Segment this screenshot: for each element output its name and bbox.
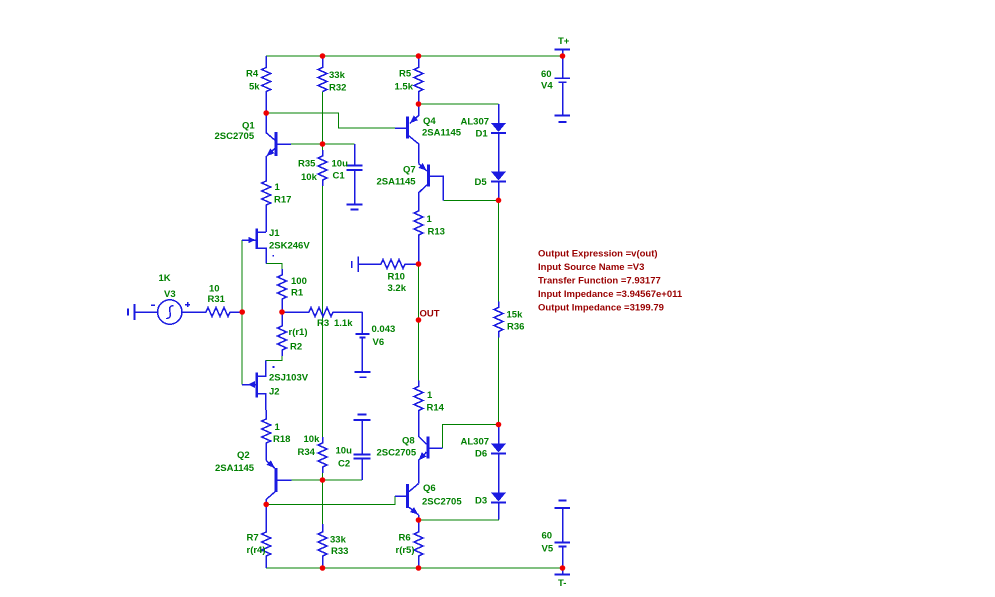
svg-text:R6: R6 (399, 533, 411, 544)
svg-text:D6: D6 (475, 449, 487, 460)
node T- (560, 565, 566, 571)
svg-text:1.5k: 1.5k (395, 82, 414, 93)
svg-text:R4: R4 (246, 69, 259, 80)
svg-text:1: 1 (427, 214, 433, 225)
svg-text:2SA1145: 2SA1145 (422, 128, 462, 139)
ground at input (128, 304, 135, 320)
terminal T+ and battery V4 60 (555, 50, 571, 116)
svg-text:5k: 5k (249, 82, 260, 93)
svg-text:J2: J2 (269, 387, 280, 398)
node R13 bottom (416, 261, 422, 267)
svg-text:2SA1145: 2SA1145 (377, 177, 417, 188)
wire R36 to D6 node (498, 338, 500, 425)
svg-text:r(r4): r(r4) (247, 545, 266, 556)
node D6 anode (496, 422, 502, 428)
svg-text:1: 1 (275, 182, 281, 193)
svg-text:100: 100 (291, 276, 307, 287)
svg-text:R36: R36 (507, 322, 524, 333)
resistor R1 100 (278, 269, 287, 312)
svg-text:R3: R3 (317, 318, 329, 329)
node Q6 emitter (416, 517, 422, 523)
svg-text:Q4: Q4 (423, 116, 436, 127)
wire Q6 emitter node to D3 (419, 503, 499, 520)
battery V6 0.043 (355, 312, 369, 372)
wire J2 source to R2 (266, 356, 282, 360)
svg-text:r(r1): r(r1) (289, 327, 308, 338)
resistor R7 r(r4) (262, 526, 271, 568)
svg-text:R32: R32 (329, 83, 346, 94)
svg-text:R33: R33 (331, 546, 348, 557)
transistor Q8 2SC2705 (419, 436, 443, 483)
diode D3 (491, 493, 506, 520)
capacitor C2 10u (354, 420, 371, 480)
svg-text:AL307: AL307 (461, 437, 490, 448)
wire node Q1 collector to Q4 base (266, 113, 395, 128)
svg-text:10u: 10u (336, 446, 353, 457)
svg-text:J1: J1 (269, 228, 280, 239)
resistor R2 r(r1) (278, 312, 287, 356)
node R5 top (416, 53, 422, 59)
resistor R35 10k (318, 150, 327, 186)
svg-text:60: 60 (542, 531, 553, 542)
svg-text:1.1k: 1.1k (334, 318, 353, 329)
node R1 R2 junction (279, 309, 285, 315)
svg-text:2SK246V: 2SK246V (269, 241, 310, 252)
svg-text:R18: R18 (273, 434, 290, 445)
transistor Q1 2SC2705 (266, 113, 291, 162)
resistor R36 15k (494, 302, 503, 338)
ground above C2 (354, 415, 371, 421)
svg-text:R31: R31 (208, 294, 226, 305)
transistor Q6 2SC2705 (395, 484, 419, 520)
svg-text:R5: R5 (399, 69, 412, 80)
battery V5 60 and terminal T- (555, 508, 571, 575)
jfet J1 2SK246V (242, 229, 274, 264)
wire R35 to R34 rail segment (322, 186, 324, 437)
node Q1 collector (263, 110, 269, 116)
svg-text:AL307: AL307 (461, 117, 490, 128)
ground above V5 (555, 501, 571, 509)
svg-text:r(r5): r(r5) (396, 545, 415, 556)
node R5 bottom (416, 101, 422, 107)
diode D5 (491, 172, 506, 201)
svg-text:V3: V3 (164, 289, 176, 300)
node T+ (560, 53, 566, 59)
svg-text:Q1: Q1 (242, 121, 255, 132)
svg-text:Q8: Q8 (402, 436, 415, 447)
svg-text:10u: 10u (332, 159, 349, 170)
svg-text:2SA1145: 2SA1145 (215, 463, 255, 474)
wire R5 node to diode D1 (419, 103, 499, 105)
svg-text:V4: V4 (541, 81, 553, 92)
svg-text:R7: R7 (247, 533, 259, 544)
resistor R32 33k (318, 56, 327, 92)
node R33 bottom (320, 565, 326, 571)
svg-text:Input Source Name =V3: Input Source Name =V3 (538, 262, 644, 273)
svg-text:C1: C1 (333, 171, 346, 182)
svg-text:33k: 33k (330, 535, 347, 546)
resistor R33 33k (318, 524, 327, 568)
analysis text block (538, 248, 683, 313)
resistor R14 1 (414, 381, 423, 437)
transistor Q2 2SA1145 (266, 460, 291, 532)
svg-text:D5: D5 (475, 177, 488, 188)
svg-text:R17: R17 (274, 195, 291, 206)
transistor Q7 2SA1145 (419, 163, 444, 205)
svg-text:R34: R34 (298, 447, 316, 458)
resistor R17 1 (262, 160, 271, 232)
node Q2 base (320, 477, 326, 483)
svg-text:Q6: Q6 (423, 483, 436, 494)
svg-text:T-: T- (558, 578, 566, 589)
ground below V4 (555, 116, 571, 123)
svg-text:OUT: OUT (420, 309, 440, 320)
svg-text:3.2k: 3.2k (388, 283, 407, 294)
svg-text:D1: D1 (476, 129, 489, 140)
ground below V6 (354, 372, 370, 377)
ground at R10 (352, 257, 359, 273)
svg-text:2SC2705: 2SC2705 (377, 448, 417, 459)
wire Q7 base to D5 node (443, 199, 498, 201)
node D5 cathode (496, 198, 502, 204)
svg-text:R10: R10 (388, 272, 405, 283)
wire Q2 base to C2 (291, 479, 362, 481)
capacitor C1 10u (347, 144, 363, 205)
wire bottom negative rail (266, 567, 562, 569)
svg-text:10k: 10k (301, 172, 318, 183)
svg-text:60: 60 (541, 69, 552, 80)
diode D6 AL307 (491, 425, 506, 493)
svg-text:0.043: 0.043 (372, 324, 396, 335)
wire J1 source to R1 (266, 264, 282, 270)
svg-text:Q2: Q2 (237, 450, 250, 461)
svg-text:Transfer Function =7.93177: Transfer Function =7.93177 (538, 275, 661, 286)
svg-text:33k: 33k (329, 70, 346, 81)
node OUT (416, 317, 422, 323)
svg-text:R14: R14 (427, 403, 445, 414)
svg-text:1K: 1K (159, 273, 171, 284)
svg-text:2SC2705: 2SC2705 (422, 497, 462, 508)
resistor R5 1.5k (414, 56, 423, 104)
wire top positive rail (266, 55, 562, 57)
transistor Q4 2SA1145 (395, 104, 419, 164)
resistor R34 10k (318, 437, 327, 473)
svg-text:R35: R35 (298, 159, 316, 170)
svg-text:V6: V6 (373, 337, 385, 348)
svg-text:Output Impedance =3199.79: Output Impedance =3199.79 (538, 303, 664, 314)
svg-text:10: 10 (209, 284, 220, 295)
resistor R18 1 (262, 410, 271, 461)
svg-text:V5: V5 (542, 544, 554, 555)
source V3 1K (135, 300, 207, 324)
svg-text:15k: 15k (507, 310, 524, 321)
wire Q1 base to R35/C1 node (291, 143, 355, 145)
diode D1 AL307 (491, 104, 506, 172)
wire out node R13 to R14 (418, 264, 420, 381)
svg-text:2SJ103V: 2SJ103V (269, 373, 309, 384)
svg-text:2SC2705: 2SC2705 (215, 131, 255, 142)
resistor R10 3.2k (359, 260, 419, 269)
svg-text:C2: C2 (338, 459, 350, 470)
wire D5 node down to R36 (498, 200, 500, 301)
svg-text:1: 1 (275, 422, 281, 433)
svg-text:Output Expression =v(out): Output Expression =v(out) (538, 248, 658, 259)
ground below C1 (347, 205, 363, 210)
wire R32 to R35 rail segment (322, 92, 324, 151)
jfet J2 2SJ103V (242, 360, 274, 409)
node gate rail (239, 309, 245, 315)
resistor R13 1 (414, 205, 423, 264)
svg-text:Q7: Q7 (403, 165, 416, 176)
svg-text:R2: R2 (290, 342, 302, 353)
svg-text:D3: D3 (475, 496, 487, 507)
svg-text:R13: R13 (428, 227, 445, 238)
resistor R3 1.1k (282, 308, 362, 317)
svg-text:Input Impedance =3.94567e+011: Input Impedance =3.94567e+011 (538, 289, 683, 300)
wire Q2 collector node to Q6 base (266, 496, 406, 504)
node R32 top (320, 53, 326, 59)
node Q1 base (320, 141, 326, 147)
svg-text:1: 1 (427, 390, 433, 401)
wire gate rail J1 to J2 (241, 240, 243, 385)
wire Q8 base to D6 node (443, 425, 499, 449)
svg-text:R1: R1 (291, 288, 304, 299)
resistor R6 r(r5) (414, 520, 423, 568)
node Q2 collector (263, 502, 269, 508)
node R6 bottom (416, 565, 422, 571)
resistor R31 10 (182, 308, 242, 317)
wire R34 node to R33 (322, 473, 324, 524)
svg-text:T+: T+ (558, 36, 570, 47)
svg-text:10k: 10k (304, 434, 321, 445)
resistor R4 5k (262, 56, 271, 113)
